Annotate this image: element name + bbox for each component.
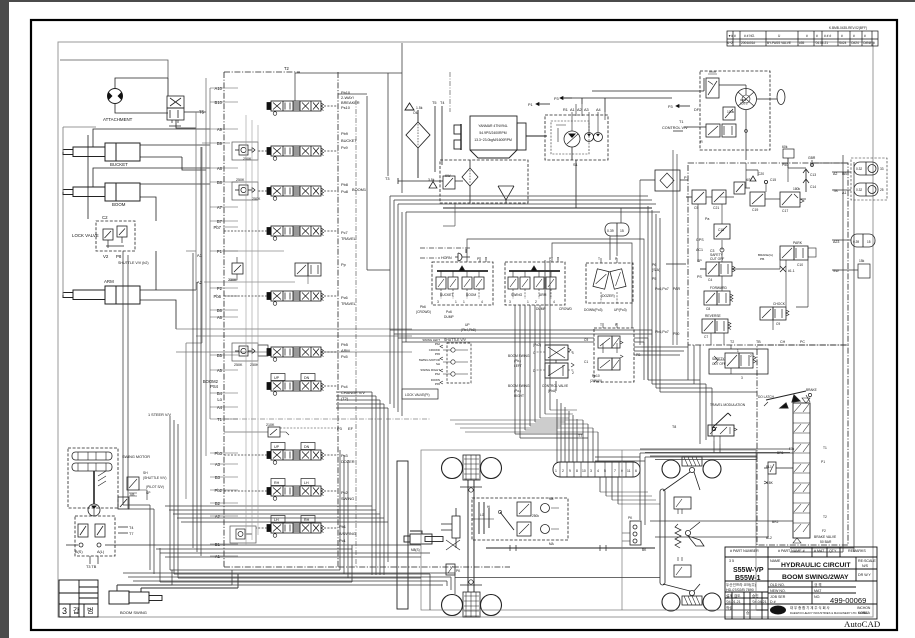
svg-text:설계: 설계 xyxy=(726,593,733,598)
svg-text:Pb2: Pb2 xyxy=(435,342,441,346)
steering cylinder on axle xyxy=(441,508,460,550)
svg-text:O#N#: O#N# xyxy=(863,41,872,45)
svg-text:#: # xyxy=(806,34,808,38)
svg-text:1: 1 xyxy=(737,349,739,353)
border feed line xyxy=(60,60,168,78)
svg-text:BOOM: BOOM xyxy=(466,293,476,297)
svg-text:#: # xyxy=(841,34,843,38)
svg-text:TRAVEL MODULATION: TRAVEL MODULATION xyxy=(710,403,746,407)
svg-text:A3: A3 xyxy=(215,462,221,467)
valve row 4 : TRAVEL Pc7 xyxy=(267,226,324,240)
svg-text:BL2: BL2 xyxy=(766,536,772,540)
svg-text:SAFETY: SAFETY xyxy=(712,357,725,361)
front axle shaft xyxy=(460,480,482,592)
svg-text:15k: 15k xyxy=(859,259,865,263)
svg-text:'04.04.21: '04.04.21 xyxy=(752,600,767,604)
svg-text:2: 2 xyxy=(535,300,537,304)
svg-text:C10: C10 xyxy=(797,263,803,267)
svg-text:LH: LH xyxy=(304,481,309,485)
svg-text:A7: A7 xyxy=(217,205,223,210)
svg-text:C14: C14 xyxy=(810,185,816,189)
svg-text:▼#: ▼# xyxy=(728,34,733,38)
svg-text:T2: T2 xyxy=(730,340,734,344)
svg-text:A10: A10 xyxy=(215,86,223,91)
hose manifold capsule xyxy=(553,462,640,477)
brake valve labels xyxy=(766,446,837,544)
svg-text:C9: C9 xyxy=(584,338,588,342)
svg-text:3.5k: 3.5k xyxy=(428,178,435,182)
svg-text:BOOM SWING/2WAY: BOOM SWING/2WAY xyxy=(782,574,849,581)
svg-text:ARM: ARM xyxy=(539,293,547,297)
svg-text:FORWARD: FORWARD xyxy=(710,286,727,290)
svg-text:P1: P1 xyxy=(528,103,533,107)
svg-text:B4: B4 xyxy=(217,391,223,396)
svg-text:BUCKET: BUCKET xyxy=(440,293,453,297)
svg-text:3: 3 xyxy=(509,300,511,304)
center vertical bundle xyxy=(372,392,384,575)
brake feed lines xyxy=(640,453,793,537)
lower valve box dashed xyxy=(75,516,115,556)
svg-text:C9: C9 xyxy=(776,322,780,326)
svg-text:C8: C8 xyxy=(706,307,710,311)
210K relief xyxy=(224,427,289,437)
svg-text:KW: KW xyxy=(445,174,451,178)
svg-text:PB.: PB. xyxy=(760,257,765,261)
LOCK VALVE dashed box xyxy=(96,221,135,251)
svg-text:Pb5: Pb5 xyxy=(435,382,441,386)
svg-text:T1: T1 xyxy=(823,446,827,450)
suction filter + tank dashed box xyxy=(440,160,528,203)
svg-text:#: # xyxy=(864,34,866,38)
svg-text:# # NO.: # # NO. xyxy=(744,34,755,38)
engine box xyxy=(454,116,547,158)
ARM cylinder xyxy=(63,286,140,304)
svg-text:11: 11 xyxy=(627,469,631,473)
svg-text:RE:SCALE: RE:SCALE xyxy=(858,559,876,563)
lower dash-dot enclosure xyxy=(757,345,848,545)
svg-text:#55: #55 xyxy=(799,41,805,45)
svg-text:B/SWING: B/SWING xyxy=(339,531,356,536)
svg-text:A5: A5 xyxy=(217,368,223,373)
bank dash-dot boundary xyxy=(224,72,510,567)
svg-text:M8: M8 xyxy=(549,497,554,501)
svg-text:A+2: A+2 xyxy=(727,41,733,45)
svg-text:T: T xyxy=(600,323,602,327)
svg-text:BOOM SWING: BOOM SWING xyxy=(508,354,530,358)
svg-text:B7: B7 xyxy=(217,219,223,224)
svg-text:BK: BK xyxy=(642,548,647,552)
T1 dash-dot pilot rail xyxy=(224,72,450,567)
svg-text:S55W-VP: S55W-VP xyxy=(733,567,764,574)
svg-text:C1: C1 xyxy=(584,360,588,364)
T5 port xyxy=(184,111,206,113)
svg-text:T2: T2 xyxy=(823,515,827,519)
svg-text:UP: UP xyxy=(274,445,280,449)
valve row 11 : B/SWING xyxy=(267,523,324,537)
svg-text:DAEWOO HEAVY INDUSTRIES & MACH: DAEWOO HEAVY INDUSTRIES & MACHINERY LTD.… xyxy=(790,611,868,615)
svg-text:Pp: Pp xyxy=(341,262,346,267)
BOOM cylinder xyxy=(63,183,140,201)
svg-text:KOREA: KOREA xyxy=(858,611,871,615)
svg-text:50 BAR: 50 BAR xyxy=(820,540,832,544)
svg-text:Pc4: Pc4 xyxy=(341,384,349,389)
svg-text:N/S: N/S xyxy=(862,564,869,568)
svg-text:규 격: 규 격 xyxy=(814,582,822,587)
svg-text:25: 25 xyxy=(880,188,884,192)
svg-text:SWING: SWING xyxy=(511,293,523,297)
svg-text:Pb10: Pb10 xyxy=(592,374,600,378)
right port labels xyxy=(833,172,847,273)
top gray strip xyxy=(0,0,915,2)
svg-text:Po6,Po7: Po6,Po7 xyxy=(655,287,669,291)
svg-text:T4: T4 xyxy=(129,526,133,530)
pilot drop bundle xyxy=(515,260,550,438)
svg-text:AC1: AC1 xyxy=(696,248,703,252)
svg-text:T7: T7 xyxy=(578,434,582,438)
svg-text:CROWD: CROWD xyxy=(559,307,572,311)
AS relief + C20 xyxy=(734,176,768,194)
svg-text:0.32: 0.32 xyxy=(856,188,862,192)
svg-text:BY-PASS VALVE: BY-PASS VALVE xyxy=(767,41,791,45)
svg-text:3: 3 xyxy=(590,469,592,473)
BUCKET cylinder xyxy=(63,143,140,161)
svg-text:BR2: BR2 xyxy=(772,520,779,524)
svg-text:Pa: Pa xyxy=(705,217,709,221)
svg-text:7: 7 xyxy=(614,469,616,473)
svg-text:#: # xyxy=(816,34,818,38)
svg-text:PC: PC xyxy=(800,340,805,344)
svg-text:100.5: 100.5 xyxy=(740,102,748,106)
svg-text:O#24: O#24 xyxy=(851,41,859,45)
svg-text:GBR: GBR xyxy=(808,156,816,160)
main return line xyxy=(443,207,652,209)
svg-text:BRAKE VALVE: BRAKE VALVE xyxy=(814,535,837,539)
svg-text:LG: LG xyxy=(480,513,485,517)
svg-text:OIL: OIL xyxy=(413,111,418,115)
svg-text:TRAVEL: TRAVEL xyxy=(341,301,357,306)
svg-text:LOCK VALVE: LOCK VALVE xyxy=(72,233,99,238)
gauge capsule right xyxy=(851,234,875,247)
svg-text:K.BMB-0435-REV.02(BFF): K.BMB-0435-REV.02(BFF) xyxy=(829,26,867,30)
svg-text:BUCKET: BUCKET xyxy=(110,162,128,167)
gauge capsule xyxy=(605,223,629,236)
svg-text:T5: T5 xyxy=(199,110,205,115)
svg-text:# PART NUMBER: # PART NUMBER xyxy=(730,549,759,553)
svg-text:C7: C7 xyxy=(704,335,708,339)
svg-text:Po6: Po6 xyxy=(446,310,452,314)
front axle top wheels xyxy=(442,455,502,480)
svg-text:B3: B3 xyxy=(215,475,221,480)
svg-text:# # #: # # # xyxy=(824,34,831,38)
svg-text:54.9PS/2400RPM: 54.9PS/2400RPM xyxy=(479,131,506,135)
svg-text:HD-07/02/B 7890: HD-07/02/B 7890 xyxy=(726,588,754,592)
motor circle xyxy=(88,504,100,516)
svg-text:C15: C15 xyxy=(770,178,776,182)
svg-text:Pc5: Pc5 xyxy=(341,354,348,359)
svg-text:F2: F2 xyxy=(822,529,826,533)
svg-text:C21: C21 xyxy=(713,206,719,210)
transmission dashed box xyxy=(472,498,568,540)
svg-text:P50: P50 xyxy=(782,163,788,167)
long horizontals mid right xyxy=(595,457,645,461)
svg-text:(2-WAY): (2-WAY) xyxy=(590,379,602,383)
pump attachment xyxy=(107,89,122,104)
driveshaft xyxy=(486,545,655,551)
svg-text:B1: B1 xyxy=(215,542,221,547)
svg-text:BOOM1: BOOM1 xyxy=(352,187,366,192)
svg-text:15: 15 xyxy=(867,240,871,244)
svg-text:5: 5 xyxy=(604,469,606,473)
svg-text:A2: A2 xyxy=(577,108,582,112)
svg-text:4: 4 xyxy=(553,300,555,304)
svg-text:A1: A1 xyxy=(215,554,221,559)
svg-text:2: 2 xyxy=(562,469,564,473)
PK valve small xyxy=(446,564,455,575)
svg-text:P3: P3 xyxy=(554,97,559,101)
left gray strip xyxy=(0,0,9,638)
svg-text:P: P xyxy=(615,257,618,261)
svg-text:T: T xyxy=(485,257,487,261)
horn symbol xyxy=(455,249,470,261)
svg-text:'04.04.21: '04.04.21 xyxy=(815,41,828,45)
svg-text:P3: P3 xyxy=(668,105,673,109)
svg-text:ARM: ARM xyxy=(341,348,350,353)
svg-text:RH: RH xyxy=(274,481,280,485)
svg-text:4: 4 xyxy=(597,469,599,473)
valve row 7 : ARM xyxy=(267,347,324,361)
svg-text:T5: T5 xyxy=(432,101,436,105)
svg-text:Pb6,Po7: Pb6,Po7 xyxy=(655,330,669,334)
svg-text:(DOZER): (DOZER) xyxy=(601,294,615,298)
pilot assembly 2 : SWING / ARM xyxy=(505,257,565,305)
svg-text:1: 1 xyxy=(455,300,457,304)
arm wires xyxy=(140,251,196,329)
svg-text:CONTROL V/V: CONTROL V/V xyxy=(662,126,688,130)
port rail labels xyxy=(197,86,223,559)
svg-text:Lo: Lo xyxy=(217,397,222,402)
svg-text:T: T xyxy=(557,257,559,261)
svg-text:P8: P8 xyxy=(116,254,122,259)
svg-text:DN: DN xyxy=(304,445,310,449)
svg-text:0.39: 0.39 xyxy=(607,229,614,233)
valve row 10 : SWING xyxy=(267,486,324,500)
3.5k KW heater xyxy=(398,176,463,189)
svg-text:250K: 250K xyxy=(252,197,261,201)
svg-text:T3: T3 xyxy=(385,177,389,181)
svg-text:C13: C13 xyxy=(810,173,816,177)
svg-text:D #: D # xyxy=(770,600,776,604)
svg-text:1.5k: 1.5k xyxy=(416,106,423,110)
svg-text:B55W-1: B55W-1 xyxy=(735,575,761,582)
svg-text:S#24: S#24 xyxy=(839,41,847,45)
svg-text:SHUTTLE V/V: SHUTTLE V/V xyxy=(444,338,467,342)
svg-text:499-00069: 499-00069 xyxy=(830,596,866,605)
svg-text:SH: SH xyxy=(436,362,440,366)
svg-text:검도: 검도 xyxy=(734,593,741,598)
svg-text:QTY: QTY xyxy=(829,549,837,553)
svg-text:100k: 100k xyxy=(727,110,735,114)
svg-text:Pc9: Pc9 xyxy=(341,145,348,150)
svg-text:AutoCAD: AutoCAD xyxy=(844,619,880,629)
svg-text:ARM: ARM xyxy=(104,279,114,284)
svg-text:B8: B8 xyxy=(217,180,223,185)
svg-text:NEW NO.: NEW NO. xyxy=(770,589,786,593)
svg-text:R: R xyxy=(700,140,703,144)
svg-text:JOB SER: JOB SER xyxy=(770,595,786,599)
svg-text:1: 1 xyxy=(527,300,529,304)
svg-text:Pb3: Pb3 xyxy=(215,451,223,456)
svg-text:P1: P1 xyxy=(217,249,223,254)
capsule to rear axle xyxy=(600,477,618,504)
svg-text:P1: P1 xyxy=(821,460,825,464)
svg-text:DUMP: DUMP xyxy=(444,315,455,319)
svg-text:D: D xyxy=(533,369,536,373)
svg-text:C17: C17 xyxy=(782,209,788,213)
port ticks xyxy=(202,88,238,556)
svg-text:1 STEER V/V: 1 STEER V/V xyxy=(148,413,171,417)
svg-text:A6: A6 xyxy=(217,315,223,320)
svg-text:C18: C18 xyxy=(718,228,724,232)
valve row 9 : DOZER xyxy=(267,450,324,464)
svg-text:T3 TB: T3 TB xyxy=(86,565,97,569)
boom swing cyl pipes xyxy=(117,570,238,591)
svg-text:A2: A2 xyxy=(197,280,203,285)
svg-text:T1: T1 xyxy=(679,120,683,124)
svg-text:BOOM: BOOM xyxy=(112,202,126,207)
valve row 6 : TRAVEL Pc6 xyxy=(267,291,324,305)
svg-text:CHOCK: CHOCK xyxy=(773,302,786,306)
svg-text:(PbA): (PbA) xyxy=(548,389,556,393)
svg-text:P2: P2 xyxy=(217,286,223,291)
svg-text:Pu8: Pu8 xyxy=(341,189,348,194)
svg-text:180k: 180k xyxy=(793,187,801,191)
svg-text:A1: A1 xyxy=(197,253,203,258)
small box left of rear axle xyxy=(622,521,641,545)
wires pump to control valve xyxy=(563,78,704,112)
svg-text:3: 3 xyxy=(437,300,439,304)
svg-text:P: P xyxy=(615,323,618,327)
svg-text:BRAKE: BRAKE xyxy=(806,388,817,392)
bottom-left long horizontals xyxy=(170,570,348,578)
svg-text:1: 1 xyxy=(463,300,465,304)
pilot valve right of shaft xyxy=(127,477,139,490)
svg-text:T2: T2 xyxy=(284,66,290,71)
svg-text:A4: A4 xyxy=(217,405,223,410)
pump assembly dashed box xyxy=(545,104,608,208)
svg-text:SHUTTLE V/V (b2): SHUTTLE V/V (b2) xyxy=(118,261,149,265)
svg-text:SWING MOTOR: SWING MOTOR xyxy=(122,455,150,459)
svg-text:R1: R1 xyxy=(563,108,568,112)
svg-text:V2: V2 xyxy=(103,254,109,259)
svg-text:10: 10 xyxy=(582,469,586,473)
svg-text:B2: B2 xyxy=(215,501,221,506)
svg-text:Pb9: Pb9 xyxy=(341,131,348,136)
svg-text:#1.1: #1.1 xyxy=(788,269,795,273)
svg-text:B(S): B(S) xyxy=(75,550,83,554)
svg-text:CH: CH xyxy=(780,340,786,344)
verticals x 690-700 down right side xyxy=(688,345,700,384)
svg-text:A3: A3 xyxy=(584,108,589,112)
valve row 3 : BOOM1 xyxy=(267,186,324,200)
svg-text:#: # xyxy=(873,41,875,45)
svg-text:250K: 250K xyxy=(234,363,243,367)
chassis outline box xyxy=(421,450,756,610)
svg-text:P3: P3 xyxy=(337,426,342,431)
svg-text:0.32: 0.32 xyxy=(856,167,862,171)
svg-text:Pb8: Pb8 xyxy=(341,182,348,187)
svg-text:Pb7: Pb7 xyxy=(214,225,222,230)
svg-text:Pc7: Pc7 xyxy=(341,230,348,235)
svg-text:Ps10: Ps10 xyxy=(341,105,351,110)
svg-text:(CROWD): (CROWD) xyxy=(416,310,431,314)
svg-text:#: # xyxy=(853,34,855,38)
svg-text:T4: T4 xyxy=(440,101,444,105)
svg-text:250k: 250k xyxy=(532,514,539,518)
svg-text:C: C xyxy=(533,351,536,355)
svg-text:A23: A23 xyxy=(833,240,839,244)
svg-text:PARK: PARK xyxy=(793,241,803,245)
C13 C14 checks xyxy=(803,169,809,192)
svg-text:13.3~23.0kgM/1600RPM: 13.3~23.0kgM/1600RPM xyxy=(474,138,512,142)
svg-text:SW: SW xyxy=(833,269,839,273)
svg-text:4.8K: 4.8K xyxy=(766,481,774,485)
svg-text:DN: DN xyxy=(304,376,310,380)
svg-text:RIGHT: RIGHT xyxy=(514,394,524,398)
svg-text:SH: SH xyxy=(143,471,148,475)
svg-text:60k: 60k xyxy=(782,145,788,149)
svg-text:승인: 승인 xyxy=(752,593,759,598)
svg-text:#: # xyxy=(734,34,736,38)
svg-text:3 5: 3 5 xyxy=(729,559,734,563)
svg-text:15: 15 xyxy=(620,229,624,233)
right side port labels of bank xyxy=(337,90,366,543)
svg-text:S1: S1 xyxy=(573,163,578,167)
svg-text:T1: T1 xyxy=(217,417,223,422)
svg-text:(PILOT S/V): (PILOT S/V) xyxy=(146,485,164,489)
boom wires xyxy=(93,168,210,221)
svg-text:P: P xyxy=(549,257,552,261)
additional wire runs xyxy=(123,43,854,594)
valve row 8 : BOOM2 CHANGE xyxy=(267,381,324,395)
svg-text:A9: A9 xyxy=(217,127,223,132)
svg-text:# MAT: # MAT xyxy=(814,549,825,553)
svg-text:3: 3 xyxy=(741,376,743,380)
oil cooler xyxy=(405,103,430,178)
svg-text:DF: DF xyxy=(694,108,700,112)
bucket wires xyxy=(88,129,210,219)
svg-text:B9: B9 xyxy=(217,141,223,146)
svg-text:범: 범 xyxy=(87,606,93,615)
svg-text:UP(Po3): UP(Po3) xyxy=(614,308,627,312)
svg-text:HORN: HORN xyxy=(441,256,452,260)
svg-text:갑: 갑 xyxy=(73,607,80,615)
svg-text:9: 9 xyxy=(569,469,571,473)
svg-text:P: P xyxy=(684,176,687,180)
svg-text:작성: 작성 xyxy=(726,605,733,610)
svg-text:CUT OFF: CUT OFF xyxy=(712,362,726,366)
lower valves xyxy=(706,124,720,137)
svg-text:DOWN(Po3): DOWN(Po3) xyxy=(584,308,603,312)
svg-text:LH: LH xyxy=(274,518,279,522)
labels left column xyxy=(72,110,205,285)
attachment valve xyxy=(167,78,196,128)
left tall link rect xyxy=(397,461,408,609)
valve row C5 C21 xyxy=(686,190,726,204)
svg-text:T: T xyxy=(598,257,600,261)
svg-text:3: 3 xyxy=(62,606,67,616)
pilot assembly 1 : BUCKET / BOOM xyxy=(432,257,493,305)
boom swing cylinder bottom left xyxy=(109,585,238,604)
